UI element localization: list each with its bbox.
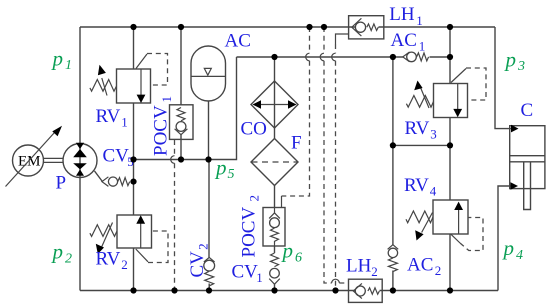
svg-text:1: 1 (416, 13, 423, 28)
pump P (63, 143, 97, 178)
wire tie line (393, 144, 450, 146)
node AC2 top (390, 54, 396, 60)
pilot dashed line to LH2 (323, 27, 325, 53)
svg-text:p: p (502, 236, 515, 260)
check valve AC1 (403, 52, 429, 62)
node tie left (390, 142, 396, 148)
load-holding valve LH1 (349, 16, 384, 39)
svg-text:3: 3 (430, 126, 437, 141)
svg-text:p: p (504, 48, 517, 72)
node tie right (447, 142, 453, 148)
svg-text:C: C (521, 100, 534, 121)
svg-text:CV: CV (232, 262, 259, 283)
shaft EM-P (44, 158, 64, 162)
svg-text:F: F (291, 133, 302, 154)
svg-text:1: 1 (419, 39, 426, 54)
check valve AC2 (388, 245, 399, 272)
svg-text:AC: AC (407, 255, 433, 276)
node bottom RV4 (447, 287, 453, 293)
label POCV1 (151, 96, 175, 156)
svg-text:4: 4 (516, 248, 523, 263)
node CV5 junction (130, 179, 136, 185)
svg-text:2: 2 (247, 195, 262, 202)
wire bottom rail (80, 290, 357, 292)
relief valve RV2 (90, 215, 168, 263)
svg-text:LH: LH (346, 256, 372, 277)
wire CO-F-POCV2 column (274, 57, 276, 291)
check valve CV5 (102, 177, 130, 187)
svg-text:2: 2 (371, 264, 378, 279)
svg-text:POCV: POCV (239, 207, 260, 258)
wire POCV1 branch (180, 27, 182, 160)
wire AC2 branch (392, 57, 394, 291)
wire cooler header line (237, 56, 451, 58)
label POCV2 (239, 195, 262, 258)
wire p5 manifold line (134, 57, 237, 160)
wire RV1-RV2 branch (133, 27, 135, 291)
svg-text:3: 3 (517, 59, 525, 74)
node top RV3 (447, 24, 453, 30)
svg-text:LH: LH (389, 4, 415, 25)
wire AC drop (208, 101, 210, 160)
label CV2 (187, 243, 211, 277)
wire pump to CV5 (95, 171, 103, 181)
svg-text:4: 4 (430, 183, 437, 198)
node bottom RV2 (130, 287, 136, 293)
node bottom CV1 (271, 287, 277, 293)
wire CV2 branch (208, 160, 210, 291)
wire top rail right (379, 26, 496, 28)
node p5 POCV1 (178, 156, 184, 162)
node bottom AC2 (390, 287, 396, 293)
svg-text:POCV: POCV (151, 105, 172, 156)
svg-text:RV: RV (404, 175, 429, 196)
relief valve RV3 (406, 68, 486, 118)
motor EM (6, 126, 63, 187)
cylinder C (510, 125, 545, 210)
svg-text:EM: EM (18, 153, 41, 169)
pilot-operated check valve POCV2 (263, 208, 285, 247)
svg-text:RV: RV (405, 118, 430, 139)
pilot dashed line LH1 drain (336, 34, 349, 44)
svg-text:1: 1 (159, 96, 174, 103)
node p5 left (130, 156, 136, 162)
svg-text:2: 2 (121, 257, 128, 272)
svg-text:2: 2 (435, 263, 442, 278)
wire cylinder bottom port (498, 186, 511, 291)
svg-text:p: p (281, 239, 294, 263)
svg-text:5: 5 (228, 167, 235, 182)
check valve CV1 (269, 253, 280, 284)
accumulator AC (191, 46, 226, 101)
svg-text:AC: AC (391, 30, 417, 51)
filter F (251, 139, 298, 186)
load-holding valve LH2 (349, 279, 383, 302)
wire right rail to cylinder top port (495, 27, 512, 129)
wire left rail (79, 27, 81, 291)
node top pilot1 (306, 24, 312, 30)
svg-text:1: 1 (65, 58, 72, 73)
node header RV3 (447, 54, 453, 60)
node bottom LH1 drain (332, 287, 338, 293)
pilot line POCV2 (281, 196, 283, 208)
wire RV3-RV4 branch (449, 27, 451, 291)
svg-text:1: 1 (121, 114, 128, 129)
svg-text:P: P (56, 173, 67, 194)
svg-text:p: p (51, 47, 64, 71)
svg-text:1: 1 (256, 270, 263, 285)
svg-text:RV: RV (96, 106, 121, 127)
wire bottom rail right (380, 290, 499, 292)
svg-text:CV: CV (103, 146, 130, 167)
svg-text:6: 6 (295, 251, 302, 266)
cooler CO (251, 81, 298, 128)
node top RV1 (130, 24, 136, 30)
node p5 AC (205, 156, 211, 162)
svg-text:p: p (51, 240, 64, 264)
pilot line POCV1 drain (174, 140, 176, 156)
pilot-operated check valve POCV1 (170, 105, 194, 140)
node top POCV1 (178, 24, 184, 30)
node bottom POCV1 drain (171, 287, 177, 293)
svg-text:p: p (214, 156, 227, 180)
svg-text:RV: RV (96, 249, 121, 270)
check valve CV2 (204, 257, 215, 286)
relief valve RV1 (90, 54, 168, 104)
wire top rail left (80, 26, 356, 28)
svg-text:CV: CV (187, 251, 208, 278)
svg-text:2: 2 (196, 243, 211, 250)
svg-text:2: 2 (65, 252, 72, 267)
node bottom CV2 (206, 287, 212, 293)
svg-text:AC: AC (225, 31, 251, 52)
node CO header (271, 54, 277, 60)
pilot dashed line to POCV2 (309, 27, 311, 53)
svg-text:CO: CO (241, 119, 267, 140)
relief valve RV4 (406, 200, 483, 251)
node top pilot2 (321, 24, 327, 30)
